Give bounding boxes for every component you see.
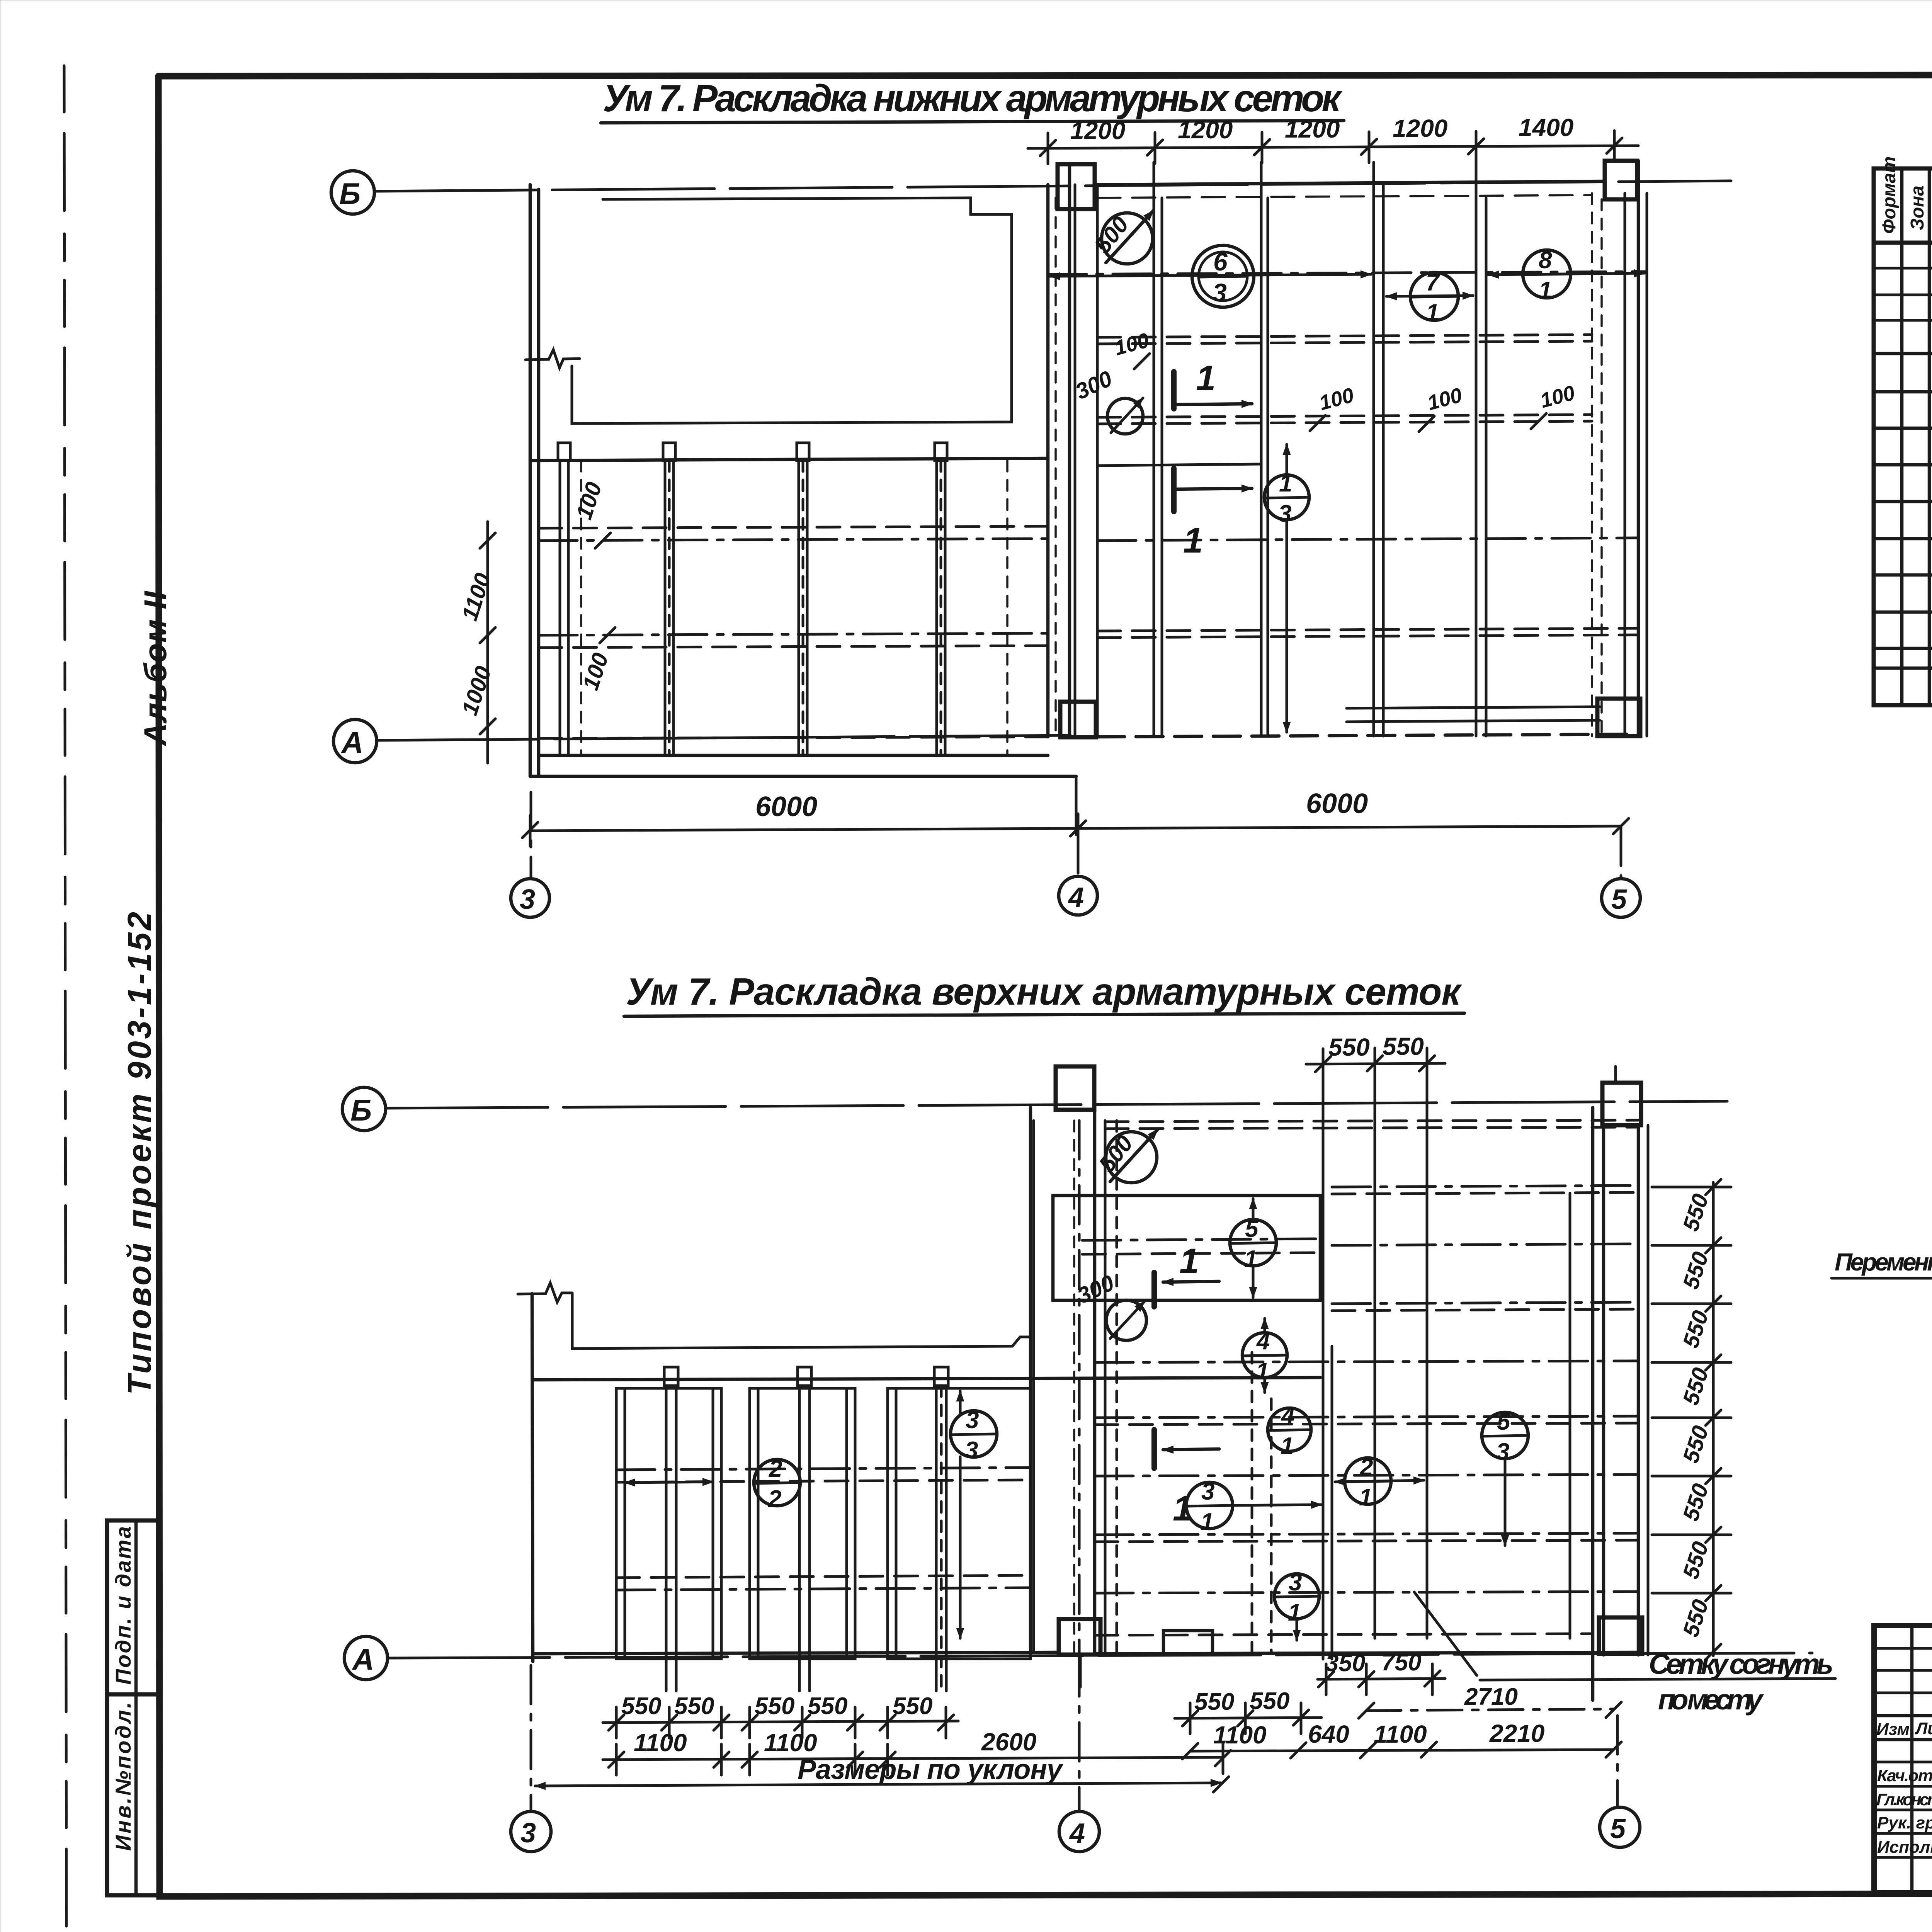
- svg-text:1400: 1400: [1519, 114, 1573, 141]
- column B5 lower: [1602, 1083, 1641, 1125]
- svg-text:2: 2: [768, 1486, 781, 1512]
- central wall band lower: [1031, 1107, 1095, 1687]
- svg-text:550: 550: [1250, 1688, 1289, 1714]
- svg-text:1: 1: [1288, 1599, 1301, 1626]
- circle 8/1: [1523, 250, 1571, 298]
- section flag lower lower-plan: [1151, 1430, 1157, 1468]
- svg-text:1: 1: [1201, 1509, 1214, 1535]
- svg-text:3: 3: [1213, 278, 1227, 307]
- break mark on left ledge line: [526, 350, 580, 368]
- svg-text:550: 550: [1678, 1249, 1714, 1292]
- svg-text:3: 3: [1278, 500, 1291, 527]
- svg-text:1: 1: [1279, 470, 1292, 497]
- svg-text:1: 1: [1281, 1433, 1294, 1459]
- spec table row lines: [1874, 268, 1932, 668]
- svg-text:1: 1: [1359, 1484, 1372, 1511]
- svg-text:Исполн.: Исполн.: [1877, 1838, 1932, 1857]
- svg-text:1: 1: [1244, 1246, 1257, 1272]
- svg-text:4: 4: [1068, 882, 1084, 913]
- lower opening outline: [518, 1283, 1031, 1349]
- P3 strip: [934, 1367, 948, 1691]
- grid line 4 lower: [1078, 1658, 1081, 1811]
- svg-text:1100: 1100: [1213, 1721, 1267, 1749]
- dim 550 550 centre: [1175, 1718, 1321, 1718]
- svg-text:100: 100: [1425, 383, 1465, 415]
- circle 2/1: [1345, 1458, 1391, 1504]
- circle 300 lower: [1106, 1300, 1146, 1340]
- svg-text:Формат: Формат: [1879, 156, 1900, 234]
- svg-text:Кач.отд.: Кач.отд.: [1877, 1766, 1932, 1785]
- svg-text:1: 1: [1183, 521, 1203, 560]
- svg-text:Изм.: Изм.: [1876, 1720, 1914, 1739]
- column A5 lower: [1599, 1617, 1642, 1654]
- circle 300 with arrow: [1107, 398, 1143, 434]
- right half horizontal mesh lines lower: [1095, 1120, 1638, 1593]
- svg-text:2: 2: [1359, 1454, 1373, 1481]
- mesh strip 4: [935, 443, 947, 755]
- 100 offset ticks left: [595, 533, 615, 643]
- dim 550 pairs left: [603, 1721, 958, 1723]
- section flag upper: [1171, 372, 1177, 409]
- circle 2/2: [754, 1459, 800, 1506]
- svg-text:550: 550: [893, 1693, 932, 1719]
- svg-text:Б: Б: [339, 177, 361, 211]
- grid line 3: [530, 792, 532, 879]
- svg-text:1: 1: [1179, 1242, 1199, 1281]
- top dim 550 550: [1306, 1063, 1445, 1064]
- svg-text:7: 7: [1426, 269, 1440, 296]
- dim 2710: [1366, 1709, 1614, 1711]
- svg-text:550: 550: [1678, 1539, 1714, 1582]
- svg-text:6000: 6000: [1306, 788, 1368, 819]
- mesh strip dashed companion lines: [581, 461, 1007, 755]
- svg-text:100: 100: [1112, 328, 1152, 360]
- circle 6/3: [1192, 245, 1254, 307]
- G_STEEL_TABLE: [1832, 1049, 1932, 1399]
- mesh span arrow 7-1: [1386, 296, 1473, 296]
- circle 5/1: [1230, 1219, 1276, 1266]
- svg-text:Переменная: Переменная: [1835, 1248, 1932, 1276]
- svg-text:1100: 1100: [764, 1729, 817, 1757]
- section flag upper lower-plan: [1151, 1272, 1157, 1307]
- svg-text:Лист: Лист: [1915, 1719, 1932, 1738]
- grid line A lower: [344, 1636, 388, 1680]
- svg-text:1200: 1200: [1285, 115, 1340, 143]
- svg-text:350: 350: [1325, 1650, 1365, 1677]
- svg-text:1200: 1200: [1070, 117, 1125, 145]
- central wall grid4: [1048, 164, 1097, 835]
- dim row 1100 etc: [603, 1757, 1223, 1760]
- svg-text:300: 300: [1071, 366, 1116, 405]
- circle 3/1: [1186, 1482, 1233, 1529]
- mesh strip 2: [663, 443, 675, 755]
- circle 3/1 bottom: [1274, 1574, 1319, 1619]
- svg-text:1100: 1100: [634, 1729, 687, 1757]
- svg-text:1100: 1100: [457, 570, 496, 624]
- svg-text:2710: 2710: [1464, 1684, 1518, 1710]
- svg-text:по месту: по месту: [1658, 1684, 1764, 1716]
- section flag lower: [1171, 468, 1177, 512]
- sidebar stamp box: [107, 1520, 160, 1895]
- left vertical dims 1100 1000: [486, 522, 489, 763]
- mesh strip 1: [558, 443, 570, 755]
- down arrow under circle: [1286, 520, 1288, 732]
- svg-text:1: 1: [1196, 359, 1216, 398]
- spec table column lines: [1902, 168, 1932, 705]
- svg-text:1200: 1200: [1393, 114, 1447, 142]
- P2 strip: [798, 1367, 811, 1691]
- svg-text:2: 2: [769, 1456, 782, 1482]
- sidebar outline: [107, 1520, 160, 1895]
- svg-text:3: 3: [966, 1407, 979, 1434]
- svg-text:550: 550: [808, 1693, 847, 1719]
- grid line 5 lower: [1614, 1066, 1617, 1082]
- left row lines: [1874, 1648, 1932, 1857]
- svg-text:А: А: [341, 725, 363, 759]
- svg-text:2210: 2210: [1489, 1719, 1544, 1747]
- upper middle mesh rect: [1053, 1196, 1320, 1300]
- spec table header bottom: [1874, 241, 1932, 245]
- svg-text:Ум 7. Раскладка нижних арматур: Ум 7. Раскладка нижних арматурных сеток: [603, 77, 1342, 119]
- dim 350 750: [1318, 1679, 1445, 1679]
- column B4: [1058, 164, 1095, 209]
- slab outline left half: [530, 185, 1076, 776]
- svg-text:550: 550: [1383, 1032, 1424, 1060]
- svg-text:3: 3: [965, 1437, 978, 1464]
- circle 1/3: [1264, 475, 1309, 520]
- spec table outline: [1874, 168, 1932, 705]
- svg-text:Размеры по уклону: Размеры по уклону: [798, 1754, 1064, 1785]
- left columns: [1912, 1626, 1932, 1893]
- circle 5/3: [1482, 1412, 1528, 1459]
- grid line 3 lower: [530, 1665, 532, 1811]
- svg-text:550: 550: [1678, 1365, 1714, 1408]
- circle 500 with arrow: [1102, 213, 1153, 264]
- mesh panel P3: [888, 1388, 1031, 1659]
- bottom dimension 6000+6000: [530, 826, 1621, 831]
- central panels verticals lower: [1105, 1121, 1570, 1659]
- svg-text:4: 4: [1069, 1818, 1085, 1849]
- svg-text:5: 5: [1497, 1408, 1511, 1435]
- bottom slab edge lower right: [1095, 1634, 1642, 1654]
- svg-text:550: 550: [674, 1693, 714, 1719]
- span arrow in P1: [625, 1482, 713, 1483]
- svg-text:Гл.констр.: Гл.констр.: [1876, 1790, 1932, 1809]
- svg-text:1200: 1200: [1178, 116, 1233, 144]
- svg-text:100: 100: [571, 479, 607, 522]
- svg-text:6: 6: [1213, 247, 1228, 276]
- svg-text:Подп. и дата: Подп. и дата: [111, 1526, 135, 1685]
- inner lines of middle rect: [1082, 1239, 1316, 1254]
- sidebar divider horizontal: [107, 1692, 160, 1697]
- svg-text:100: 100: [1317, 383, 1357, 415]
- mesh span arrow 6-3: [1050, 274, 1371, 276]
- vertical arrow in P3: [959, 1457, 962, 1638]
- svg-text:550: 550: [1194, 1689, 1234, 1715]
- bottom step notch: [1163, 1631, 1213, 1653]
- right half mesh verticals: [1154, 162, 1486, 736]
- svg-text:640: 640: [1308, 1720, 1349, 1748]
- svg-text:550: 550: [621, 1693, 661, 1719]
- right half top and bottom edges: [1097, 181, 1640, 737]
- svg-text:Б: Б: [350, 1093, 372, 1127]
- sidebar divider vertical: [134, 1520, 138, 1895]
- P1 strip: [664, 1367, 678, 1691]
- svg-text:1000: 1000: [457, 663, 497, 718]
- opening rectangle: [572, 198, 1012, 423]
- right wall grid5 lower: [1593, 1107, 1648, 1700]
- mesh panel P1: [616, 1388, 721, 1659]
- svg-text:100: 100: [578, 650, 614, 693]
- column A5: [1597, 699, 1640, 736]
- circle 3/3: [951, 1411, 997, 1457]
- svg-text:Рук. гр.: Рук. гр.: [1877, 1813, 1932, 1832]
- svg-text:А: А: [352, 1642, 374, 1676]
- svg-text:550: 550: [1678, 1481, 1714, 1524]
- column B5: [1605, 161, 1637, 199]
- svg-text:750: 750: [1381, 1649, 1421, 1676]
- svg-text:550: 550: [1328, 1033, 1370, 1061]
- svg-text:8: 8: [1539, 247, 1552, 274]
- grid line A: [333, 719, 377, 763]
- svg-text:550: 550: [755, 1693, 794, 1719]
- mesh centre lines left half: [539, 526, 1048, 738]
- svg-text:3: 3: [520, 884, 535, 915]
- grid line B lower: [342, 1087, 386, 1131]
- title block outline: [1874, 1626, 1932, 1893]
- circle 4/1: [1242, 1333, 1287, 1378]
- svg-text:6000: 6000: [755, 791, 817, 822]
- svg-text:550: 550: [1678, 1191, 1714, 1234]
- svg-text:Типовой проект 903-1-152: Типовой проект 903-1-152: [121, 912, 158, 1395]
- right wall grid5: [1592, 161, 1647, 736]
- svg-text:100: 100: [1538, 381, 1578, 412]
- svg-text:Инв.№подл.: Инв.№подл.: [111, 1702, 135, 1851]
- column B4 lower: [1056, 1066, 1094, 1110]
- svg-text:4: 4: [1256, 1328, 1270, 1355]
- svg-text:5: 5: [1611, 884, 1627, 915]
- svg-text:3: 3: [520, 1818, 536, 1849]
- grid line 4: [1077, 835, 1080, 876]
- svg-text:550: 550: [1678, 1597, 1714, 1640]
- svg-text:Альбом II: Альбом II: [138, 590, 173, 747]
- left slab outline lower: [532, 1294, 1320, 1662]
- top dimension chain: [1028, 146, 1638, 148]
- grid line B: [331, 171, 374, 214]
- svg-text:Зона: Зона: [1907, 185, 1928, 230]
- mesh strip 3: [797, 443, 809, 755]
- svg-text:550: 550: [1678, 1308, 1714, 1351]
- column A4: [1060, 702, 1096, 737]
- column A4 lower: [1059, 1619, 1100, 1655]
- svg-text:3: 3: [1496, 1439, 1509, 1465]
- svg-text:1100: 1100: [1374, 1720, 1427, 1748]
- page left edge dashed line: [64, 66, 66, 1932]
- circle 7/1: [1410, 272, 1458, 320]
- svg-text:2600: 2600: [981, 1728, 1036, 1756]
- svg-text:5: 5: [1610, 1813, 1626, 1844]
- right half mesh horizontals: [1048, 272, 1647, 638]
- svg-text:Сетку согнуть: Сетку согнуть: [1649, 1648, 1833, 1680]
- circle 4/1 second: [1268, 1408, 1311, 1451]
- right 550 dim chain: [1712, 1182, 1715, 1656]
- svg-text:3: 3: [1201, 1478, 1214, 1505]
- svg-text:Ум 7. Раскладка верхних армату: Ум 7. Раскладка верхних арматурных сеток: [626, 970, 1462, 1013]
- mesh span arrow 8-1: [1488, 273, 1645, 275]
- circle 500 lower: [1106, 1132, 1157, 1183]
- svg-text:1: 1: [1426, 299, 1439, 326]
- grid line 5: [1620, 827, 1622, 879]
- panel centre dash lines: [616, 1468, 1031, 1590]
- svg-text:1: 1: [1539, 277, 1552, 304]
- svg-text:550: 550: [1678, 1423, 1714, 1466]
- mesh panel P2: [750, 1388, 855, 1659]
